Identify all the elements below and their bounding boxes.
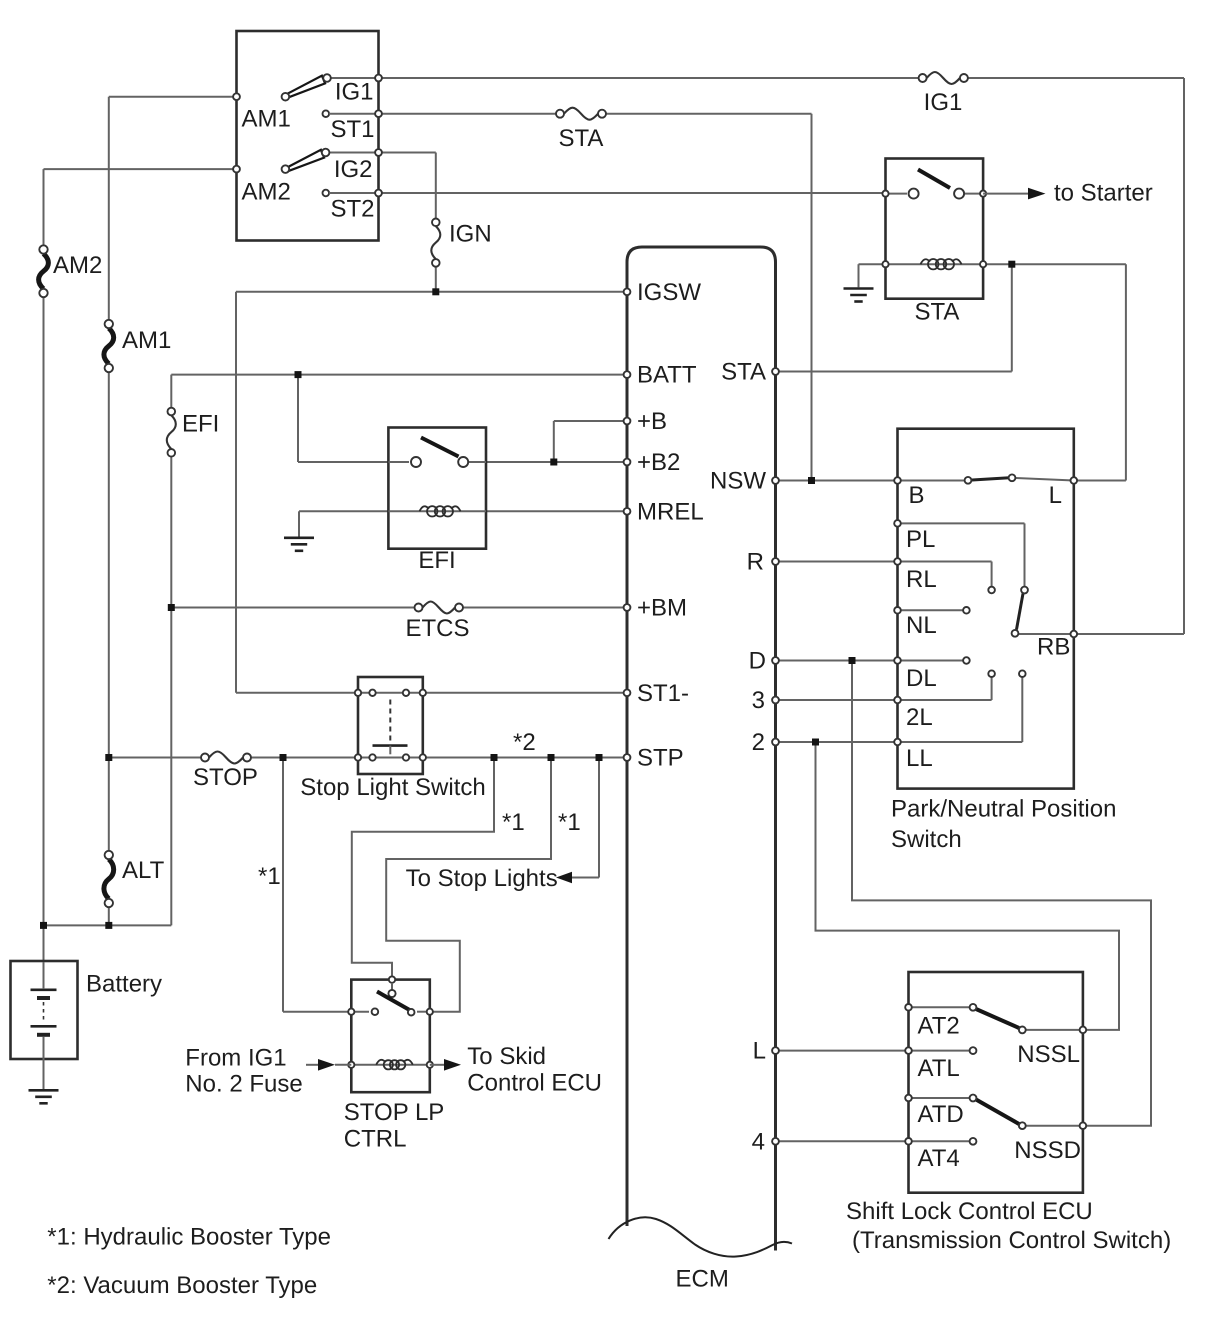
svg-text:*2: Vacuum Booster Type: *2: Vacuum Booster Type — [47, 1272, 317, 1299]
shift lock ATD-NSSD lever — [970, 1095, 1026, 1130]
arrow To Stop Lights — [406, 865, 599, 892]
PNP NL contact circle — [963, 607, 970, 614]
wire 3 (ECM 3 to 2L) — [776, 699, 898, 701]
svg-text:LL: LL — [906, 745, 933, 772]
ECM left pins and labels (IGSW BATT +B +B2 MREL +BM ST1- STP) — [624, 279, 704, 772]
svg-text:IG1: IG1 — [924, 89, 963, 116]
shift lock control ECU box — [909, 972, 1083, 1193]
svg-text:RL: RL — [906, 566, 937, 593]
junction +BM-EFI fuse — [168, 604, 175, 611]
wire EFI relay output (+B2 line to ECM, +B branch) — [486, 421, 627, 462]
EFI relay switch contacts — [411, 457, 468, 467]
wire battery column (AM2 fuse to battery) — [43, 293, 45, 962]
shift lock AT2-NSSL lever — [970, 1004, 1026, 1033]
battery box — [11, 961, 78, 1059]
wire D (ECM D to DL) — [776, 660, 898, 662]
svg-text:Park/Neutral Position: Park/Neutral Position — [891, 796, 1116, 823]
wire NSW (ECM NSW to park/neutral B) — [776, 480, 898, 482]
PNP 2L contact circle — [988, 670, 995, 677]
svg-text:EFI: EFI — [418, 547, 455, 574]
junction +B2 branch — [550, 459, 557, 466]
svg-text:AM2: AM2 — [53, 252, 102, 279]
svg-text:3: 3 — [752, 687, 765, 714]
svg-text:Switch: Switch — [891, 826, 962, 853]
label EFI (relay) — [418, 547, 455, 574]
svg-text:(Transmission Control Switch): (Transmission Control Switch) — [852, 1227, 1171, 1254]
svg-text:2L: 2L — [906, 704, 933, 731]
svg-text:NL: NL — [906, 612, 937, 639]
ignition ST1 contact — [323, 110, 379, 117]
PNP DL contact circle — [963, 657, 970, 664]
wire IG1 net (IG1 pin to right edge, down to RB) — [328, 78, 1184, 634]
svg-text:*1: Hydraulic Booster Type: *1: Hydraulic Booster Type — [47, 1224, 331, 1251]
wire 2 branch to NSSL — [816, 742, 1120, 1030]
STA relay coil — [921, 259, 962, 269]
wire *1 branch to STOP LP CTRL right side — [386, 758, 551, 1012]
PNP RL contact circle — [988, 587, 995, 594]
wire ATL contact line — [909, 1050, 970, 1052]
svg-text:STP: STP — [637, 745, 684, 772]
label Battery — [86, 971, 162, 998]
wire AT4 contact line — [909, 1140, 970, 1142]
ignition AM2 lever — [282, 149, 330, 173]
ignition ST1 terminal — [375, 110, 382, 117]
wire R (ECM R to RL) — [776, 561, 898, 563]
stop light switch box — [358, 677, 423, 774]
svg-text:L: L — [753, 1038, 766, 1065]
STOP LP CTRL pivot — [388, 983, 395, 997]
svg-text:*1: *1 — [558, 809, 581, 836]
ignition ST2 contact — [323, 190, 379, 197]
PNP terminal DL — [894, 657, 936, 692]
label IG1 (ignition) — [335, 79, 374, 106]
svg-text:NSSL: NSSL — [1017, 1041, 1080, 1068]
wire MREL (ground, relay coil, to ECM MREL) — [299, 511, 627, 538]
wire PNP NL contact — [898, 609, 964, 611]
svg-text:AT4: AT4 — [918, 1145, 960, 1172]
wire STA pin net (ECM STA up to relay coil junction) — [776, 264, 1012, 371]
svg-text:2: 2 — [752, 729, 765, 756]
svg-text:STA: STA — [915, 299, 960, 326]
svg-text:ALT: ALT — [122, 857, 165, 884]
wire 4 (ECM 4 to AT4) — [776, 1140, 909, 1142]
junction 2 branch — [812, 739, 819, 746]
svg-text:IGN: IGN — [449, 221, 492, 248]
wire PNP RB to right edge — [1018, 633, 1074, 635]
wire L (ECM L to ATL) — [776, 1050, 909, 1052]
ignition IG2 terminal — [375, 149, 382, 156]
svg-text:R: R — [747, 549, 764, 576]
svg-text:to Starter: to Starter — [1054, 180, 1153, 207]
junction bottom bus battery — [40, 922, 47, 929]
svg-text:+B: +B — [637, 408, 667, 435]
ground (battery) — [29, 1090, 59, 1103]
junction BATT-EFI relay — [295, 371, 302, 378]
ECM right pins and labels (STA NSW R D 3 2 L 4) — [710, 359, 779, 1156]
wire AM2 (ignition switch AM2 to battery bus) — [44, 169, 237, 249]
PNP terminal B — [894, 477, 924, 509]
wire AM1 (ignition switch AM1 to left bus) — [109, 97, 237, 324]
STOP LP CTRL coil — [376, 1060, 413, 1070]
arrow to skid control ECU — [430, 1059, 461, 1071]
svg-text:D: D — [749, 648, 766, 675]
arrow to Starter — [983, 180, 1153, 207]
svg-text:4: 4 — [752, 1128, 765, 1155]
svg-text:+B2: +B2 — [637, 449, 680, 476]
svg-text:Battery: Battery — [86, 971, 162, 998]
junction STP *1 left — [280, 754, 287, 761]
label STOP LP CTRL — [344, 1099, 445, 1153]
ignition AM1 lever — [282, 74, 331, 100]
wire ALT column (AM1 fuse to bottom bus) — [108, 368, 110, 925]
wire bottom-left bus — [43, 924, 45, 926]
svg-text:STOP LP: STOP LP — [344, 1099, 445, 1126]
svg-text:ETCS: ETCS — [405, 615, 469, 642]
svg-text:PL: PL — [906, 526, 935, 553]
PNP B-L moving contact — [965, 474, 1016, 483]
STOP LP CTRL relay box — [351, 980, 430, 1093]
fusible link AM1 — [104, 320, 171, 372]
label ST2 — [330, 196, 374, 223]
label AM2 — [242, 179, 291, 206]
wire NSSL to right edge — [1026, 1029, 1083, 1031]
label AM1 — [242, 106, 291, 133]
junction D branch — [849, 657, 856, 664]
label Park/Neutral Position Switch — [891, 796, 1116, 854]
STOP LP CTRL edge pins — [348, 1009, 433, 1068]
wire PNP RL contact — [898, 562, 992, 588]
shift lock AT2 terminal — [905, 1004, 960, 1040]
stop light switch top terminals — [355, 690, 426, 696]
fuse EFI — [167, 408, 220, 457]
svg-text:ST2: ST2 — [330, 196, 374, 223]
ground (EFI relay) — [284, 538, 314, 551]
wire *1 branch to STOP LP CTRL switch — [283, 758, 351, 1012]
svg-text:ST1: ST1 — [330, 116, 374, 143]
label STA (relay) — [915, 299, 960, 326]
svg-text:ATD: ATD — [918, 1101, 964, 1128]
ignition switch box — [237, 31, 379, 241]
svg-text:*1: *1 — [258, 863, 281, 890]
PNP terminal L — [1049, 477, 1077, 509]
junction STA coil — [1008, 261, 1015, 268]
STA relay switch contacts — [909, 189, 965, 199]
junction STP *1 b — [548, 754, 555, 761]
shift lock ATD terminal — [905, 1095, 964, 1128]
PNP terminal NL — [894, 607, 936, 639]
wire ST1-STA net (ST1 pin through STA fuse down to NSW) — [379, 114, 812, 481]
svg-text:To Stop Lights: To Stop Lights — [406, 865, 558, 892]
ignition AM1 terminal — [233, 93, 240, 100]
svg-text:NSW: NSW — [710, 468, 766, 495]
EFI relay lever — [421, 438, 459, 457]
wire PNP LL contact — [898, 677, 1023, 742]
wire BATT (ECM BATT to left bus via EFI fuse column) — [44, 375, 628, 926]
wire PNP B-L line — [898, 478, 1074, 481]
junction STP stop-lights — [596, 754, 603, 761]
PNP terminal LL — [894, 739, 933, 772]
svg-text:DL: DL — [906, 665, 937, 692]
fusible link AM2 — [39, 245, 103, 297]
ignition ST2 terminal — [375, 190, 382, 197]
svg-text:From IG1: From IG1 — [185, 1045, 286, 1072]
note *2 Vacuum Booster Type — [47, 1272, 317, 1299]
label To Skid Control ECU — [467, 1043, 602, 1097]
svg-text:STA: STA — [721, 359, 766, 386]
label IG2 (ignition) — [334, 156, 373, 183]
junction STP *1 a — [491, 754, 498, 761]
ignition IG1 terminal — [375, 75, 382, 82]
STOP LP CTRL contacts — [372, 1008, 415, 1015]
svg-text:RB: RB — [1037, 634, 1070, 661]
shift lock NSSL terminal — [1017, 1027, 1086, 1068]
junction STP left bus — [105, 754, 112, 761]
PNP LL contact circle — [1019, 670, 1026, 677]
EFI relay coil — [420, 506, 461, 516]
svg-text:*1: *1 — [502, 809, 525, 836]
svg-text:ECM: ECM — [676, 1266, 729, 1293]
battery symbol — [31, 962, 57, 1090]
svg-text:AT2: AT2 — [918, 1013, 960, 1040]
STOP LP CTRL lever — [377, 992, 411, 1011]
wire ST1- (left vertical corner to ECM ST1- pin) — [236, 692, 627, 694]
svg-text:CTRL: CTRL — [344, 1126, 407, 1153]
wire STA relay ground stem — [859, 264, 886, 287]
svg-text:IG2: IG2 — [334, 156, 373, 183]
fuse STOP — [193, 752, 258, 792]
PNP terminal PL — [894, 520, 935, 553]
svg-text:ST1-: ST1- — [637, 680, 689, 707]
label ECM — [676, 1266, 729, 1293]
wire STA relay coil to L terminal — [983, 264, 1126, 480]
svg-text:*2: *2 — [513, 729, 536, 756]
EFI relay box — [388, 428, 486, 549]
svg-text:AM1: AM1 — [242, 106, 291, 133]
label *1 (left branch) — [258, 863, 281, 890]
STOP LP CTRL top pin — [389, 976, 395, 982]
fuse ETCS — [405, 602, 469, 643]
wire ATD contact line — [909, 1097, 970, 1099]
STA relay box — [886, 159, 984, 299]
wire AT2 contact line — [909, 1006, 970, 1008]
ECM torn-edge wave — [609, 1217, 793, 1256]
label *1 (branch b) — [558, 809, 581, 836]
junction IGN-IGSW — [432, 288, 439, 295]
svg-text:B: B — [909, 482, 925, 509]
wire EFI relay input (BATT branch down to relay switch) — [298, 375, 388, 462]
wire ST2 (ST2 pin to STA relay switch) — [379, 192, 886, 194]
svg-text:IG1: IG1 — [335, 79, 374, 106]
wire +BM (junction to ECM +BM through ETCS fuse) — [171, 607, 627, 609]
wire NSSD to right edge — [1026, 1125, 1083, 1127]
STA relay lever — [918, 170, 950, 189]
PNP terminal RB — [1037, 631, 1077, 661]
svg-text:+BM: +BM — [637, 595, 687, 622]
park/neutral position switch box — [898, 429, 1074, 789]
ignition AM2 terminal — [233, 166, 240, 173]
label *1 (branch a) — [502, 809, 525, 836]
label ST1 — [330, 116, 374, 143]
svg-text:MREL: MREL — [637, 498, 704, 525]
note *1 Hydraulic Booster Type — [47, 1224, 331, 1251]
wire 2 (ECM 2 to LL) — [776, 741, 898, 743]
svg-text:EFI: EFI — [182, 411, 219, 438]
fuse IG1 — [919, 72, 968, 116]
svg-text:To Skid: To Skid — [467, 1043, 546, 1070]
svg-text:IGSW: IGSW — [637, 279, 701, 306]
stop light switch bottom terminals — [355, 754, 426, 760]
svg-text:BATT: BATT — [637, 362, 697, 389]
STA relay edge pins — [882, 191, 986, 268]
svg-text:AM2: AM2 — [242, 179, 291, 206]
svg-text:STA: STA — [559, 125, 604, 152]
wire D branch to NSSD — [852, 661, 1151, 1126]
ground (STA relay) — [844, 289, 874, 302]
fuse STA — [556, 108, 606, 152]
label Stop Light Switch — [300, 774, 485, 801]
wire IGSW (ECM IGSW left then down to ST1- line) — [236, 292, 627, 693]
svg-text:L: L — [1049, 482, 1062, 509]
shift lock NSSD terminal — [1014, 1122, 1086, 1164]
PNP terminal 2L — [894, 697, 933, 731]
svg-text:ATL: ATL — [918, 1055, 960, 1082]
wire PNP PL to RB pivot — [898, 523, 1025, 587]
junction NSW-STA — [808, 477, 815, 484]
junction bottom bus ALT — [105, 922, 112, 929]
svg-text:Control ECU: Control ECU — [467, 1070, 602, 1097]
label From IG1 No. 2 Fuse — [185, 1045, 302, 1098]
wire IG2 net (IG2 pin right, down through IGN fuse to IGSW line) — [327, 153, 436, 292]
stop light switch plunger — [373, 700, 408, 755]
shift lock ATL terminal — [905, 1047, 976, 1082]
wire To Stop Lights branch — [598, 758, 600, 878]
fuse IGN — [431, 219, 491, 267]
wire PNP 2L contact — [898, 677, 992, 700]
label Shift Lock Control ECU — [846, 1198, 1171, 1254]
svg-text:Stop Light Switch: Stop Light Switch — [300, 774, 485, 801]
svg-text:Shift Lock Control ECU: Shift Lock Control ECU — [846, 1198, 1093, 1225]
PNP terminal RL — [894, 558, 936, 593]
svg-text:STOP: STOP — [193, 764, 258, 791]
shift lock AT4 terminal — [905, 1138, 976, 1172]
wire PNP DL contact — [898, 660, 964, 662]
svg-text:AM1: AM1 — [122, 327, 171, 354]
arrow from IG1 No.2 fuse — [306, 1059, 351, 1071]
PNP RB moving contact — [1012, 587, 1028, 637]
label *2 (on STP line) — [513, 729, 536, 756]
svg-text:No. 2 Fuse: No. 2 Fuse — [185, 1071, 302, 1098]
fusible link ALT — [104, 851, 165, 907]
ECM outline (rounded, torn bottom) — [627, 247, 776, 1251]
wire *1 branch to STOP LP CTRL top pin — [352, 758, 494, 980]
wire STP (left bus through STOP fuse and stop light switch to ECM STP) — [109, 757, 627, 759]
svg-text:NSSD: NSSD — [1014, 1137, 1081, 1164]
